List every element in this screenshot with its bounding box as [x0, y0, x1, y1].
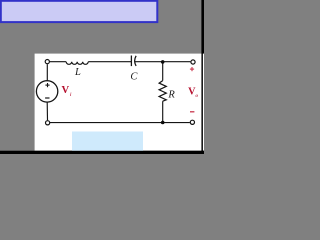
gray background — [0, 0, 204, 154]
svg-text:V: V — [62, 85, 70, 96]
minus sign inside voltage source — [45, 97, 49, 99]
wire: resistor branch upper — [162, 62, 164, 81]
resistor R zigzag — [159, 81, 166, 102]
output minus sign (red) — [190, 111, 194, 113]
wire: top rail from inductor to capacitor — [88, 61, 131, 63]
svg-text:o: o — [195, 93, 198, 99]
inductor L (coil) — [66, 62, 88, 65]
node: bottom-left terminal — [46, 121, 50, 125]
node: top-left terminal — [45, 60, 49, 64]
black bottom strip — [0, 151, 204, 154]
white sliver right of black border — [203, 54, 204, 151]
junction dot bottom — [161, 121, 165, 125]
black right edge column — [201, 0, 204, 154]
wire: left rail lower (source to node) — [46, 102, 48, 120]
wire: top rail from capacitor to right node — [135, 61, 191, 63]
node: bottom-right terminal — [190, 120, 194, 124]
svg-text:R: R — [167, 90, 175, 101]
plus sign inside voltage source — [45, 83, 49, 87]
node: top-right terminal — [191, 60, 195, 64]
wire: resistor branch lower — [162, 101, 164, 122]
capacitor C left (straight) plate — [130, 56, 132, 67]
wire: bottom rail — [48, 122, 190, 124]
junction dot top — [161, 60, 165, 64]
svg-text:L: L — [74, 67, 81, 78]
white slide panel — [35, 54, 202, 151]
light blue rectangle at bottom of slide — [72, 132, 143, 151]
wire: left rail upper (node to source) — [46, 64, 48, 81]
svg-text:C: C — [130, 72, 138, 83]
title placeholder bar (lavender with blue border) — [1, 1, 158, 22]
wire: top rail from left node to inductor — [47, 61, 66, 63]
capacitor C right (curved) plate — [135, 56, 136, 66]
voltage source circle — [36, 81, 57, 102]
output plus sign (red) — [190, 67, 194, 71]
